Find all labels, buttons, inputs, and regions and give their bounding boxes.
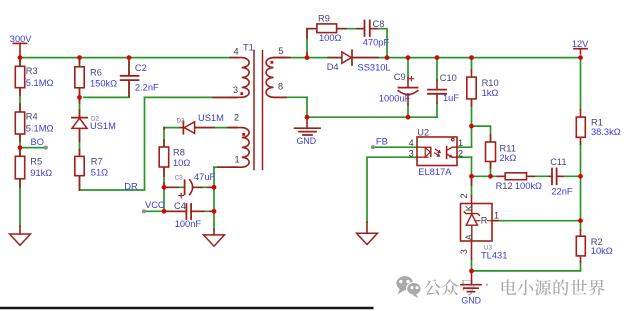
svg-text:R6: R6 <box>90 67 102 77</box>
svg-text:K: K <box>464 205 474 211</box>
svg-text:1: 1 <box>235 154 240 164</box>
svg-text:R12: R12 <box>496 181 513 191</box>
svg-text:R8: R8 <box>173 147 185 157</box>
svg-text:GND: GND <box>297 136 317 146</box>
svg-text:4: 4 <box>234 46 239 56</box>
svg-text:300V: 300V <box>10 34 33 44</box>
svg-text:91kΩ: 91kΩ <box>30 168 52 178</box>
svg-text:12V: 12V <box>572 39 589 49</box>
svg-text:47uF: 47uF <box>194 172 216 182</box>
svg-text:1000uF: 1000uF <box>379 94 411 104</box>
svg-text:100nF: 100nF <box>175 219 202 229</box>
svg-text:R7: R7 <box>91 157 103 167</box>
svg-text:5: 5 <box>279 46 284 56</box>
svg-text:C8: C8 <box>373 19 385 29</box>
svg-text:U2: U2 <box>417 128 429 138</box>
svg-text:R11: R11 <box>500 144 516 154</box>
svg-text:R9: R9 <box>318 14 330 24</box>
svg-text:T1: T1 <box>243 43 254 53</box>
svg-text:R: R <box>481 216 488 226</box>
svg-text:10kΩ: 10kΩ <box>591 246 613 256</box>
svg-text:1: 1 <box>494 211 499 221</box>
svg-text:5.1MΩ: 5.1MΩ <box>26 123 54 133</box>
svg-text:C3: C3 <box>175 174 183 181</box>
svg-text:10Ω: 10Ω <box>173 158 190 168</box>
svg-text:R3: R3 <box>26 66 38 76</box>
svg-text:1uF: 1uF <box>443 93 459 103</box>
svg-text:C2: C2 <box>135 63 147 73</box>
svg-text:3: 3 <box>409 148 414 158</box>
svg-text:BO: BO <box>31 137 44 147</box>
svg-text:1: 1 <box>458 138 463 148</box>
svg-text:C4: C4 <box>174 201 186 211</box>
svg-text:DR: DR <box>124 182 138 192</box>
svg-text:D3: D3 <box>177 117 185 124</box>
svg-text:C9: C9 <box>394 72 406 82</box>
svg-text:R5: R5 <box>30 156 42 166</box>
svg-text:GND: GND <box>461 296 481 306</box>
svg-text:100Ω: 100Ω <box>319 33 342 43</box>
svg-text:51Ω: 51Ω <box>91 168 108 178</box>
svg-text:2: 2 <box>458 148 463 158</box>
svg-text:VCC: VCC <box>145 200 165 210</box>
svg-text:3: 3 <box>233 85 238 95</box>
svg-text:38.3kΩ: 38.3kΩ <box>591 127 621 137</box>
svg-text:4: 4 <box>409 138 414 148</box>
svg-text:US1M: US1M <box>198 113 224 123</box>
svg-text:2: 2 <box>234 113 239 123</box>
svg-text:2.2nF: 2.2nF <box>135 83 159 93</box>
svg-text:EL817A: EL817A <box>418 167 452 177</box>
svg-text:5.1MΩ: 5.1MΩ <box>26 78 54 88</box>
svg-text:A: A <box>464 233 474 240</box>
svg-text:FB: FB <box>376 136 388 146</box>
svg-text:8: 8 <box>278 82 283 92</box>
svg-text:2: 2 <box>459 193 469 198</box>
svg-text:1kΩ: 1kΩ <box>482 88 499 98</box>
svg-text:SS310L: SS310L <box>358 62 391 72</box>
svg-text:TL431: TL431 <box>481 251 507 261</box>
svg-text:R4: R4 <box>26 112 38 122</box>
svg-text:22nF: 22nF <box>551 187 573 197</box>
svg-text:C10: C10 <box>440 73 457 83</box>
svg-text:D4: D4 <box>327 62 339 72</box>
svg-text:2kΩ: 2kΩ <box>500 153 517 163</box>
svg-text:470pF: 470pF <box>363 38 390 48</box>
svg-text:C11: C11 <box>550 157 566 167</box>
svg-text:R10: R10 <box>482 78 499 88</box>
svg-text:3: 3 <box>459 249 469 254</box>
svg-text:100kΩ: 100kΩ <box>515 181 542 191</box>
svg-text:US1M: US1M <box>90 121 116 131</box>
svg-text:150kΩ: 150kΩ <box>90 78 117 88</box>
